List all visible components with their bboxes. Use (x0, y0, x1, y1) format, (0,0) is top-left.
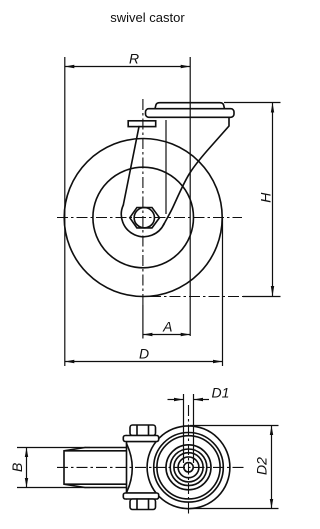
svg-text:D1: D1 (212, 384, 230, 400)
svg-text:R: R (129, 51, 139, 67)
svg-text:swivel castor: swivel castor (110, 10, 185, 25)
svg-text:D: D (139, 346, 149, 362)
svg-text:A: A (162, 318, 172, 334)
svg-text:D2: D2 (254, 457, 270, 475)
svg-text:H: H (258, 192, 274, 203)
svg-text:B: B (9, 463, 25, 472)
